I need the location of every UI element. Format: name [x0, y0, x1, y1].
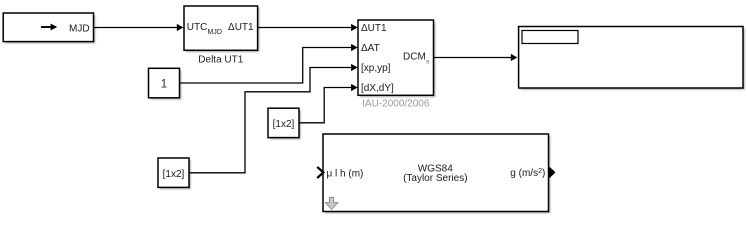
svg-text:(Taylor Series): (Taylor Series)	[403, 173, 467, 184]
constant block [1x2] lower	[158, 158, 191, 189]
svg-text:MJD: MJD	[69, 24, 90, 35]
svg-text:[dX,dY]: [dX,dY]	[361, 83, 394, 94]
svg-text:s: s	[426, 60, 429, 66]
output chevron port	[549, 168, 554, 177]
svg-text:[1x2]: [1x2]	[273, 119, 295, 130]
wire: upper [1x2] -> IAU port4 [dX,dY]	[299, 84, 358, 123]
svg-text:ΔUT1: ΔUT1	[361, 23, 387, 34]
block IAU-2000/2006	[358, 20, 436, 97]
wire: DCM -> Display	[434, 54, 518, 61]
input chevron port	[317, 167, 323, 178]
constant block [1x2] upper	[268, 108, 301, 139]
svg-text:[1x2]: [1x2]	[163, 169, 185, 180]
svg-text:1: 1	[161, 76, 168, 90]
svg-text:[xp,yp]: [xp,yp]	[361, 63, 391, 74]
svg-text:ΔUT1: ΔUT1	[228, 22, 254, 33]
wire: lower [1x2] -> IAU port3 [xp,yp]	[189, 64, 358, 173]
svg-text:ΔAT: ΔAT	[361, 43, 380, 54]
block Delta UT1	[184, 6, 260, 52]
block Display	[519, 27, 745, 91]
display value field	[522, 31, 578, 44]
arrow icon inside B1	[41, 24, 57, 31]
svg-text:Delta UT1: Delta UT1	[198, 55, 243, 66]
wire: constant 1 -> IAU port2 (dAT)	[180, 44, 358, 83]
constant block 1	[149, 68, 182, 100]
gray library-link down arrow	[325, 197, 337, 209]
svg-text:DCM: DCM	[403, 51, 426, 62]
block B1 time source (MJD)	[3, 13, 95, 44]
svg-text:IAU-2000/2006: IAU-2000/2006	[362, 99, 430, 110]
wire W2: Delta UT1 -> IAU port1	[258, 24, 358, 31]
wire W1: B1 out -> Delta UT1 in	[94, 24, 184, 31]
block WGS84 (Taylor Series)	[323, 134, 551, 214]
svg-text:μ l h (m): μ l h (m)	[327, 169, 364, 180]
